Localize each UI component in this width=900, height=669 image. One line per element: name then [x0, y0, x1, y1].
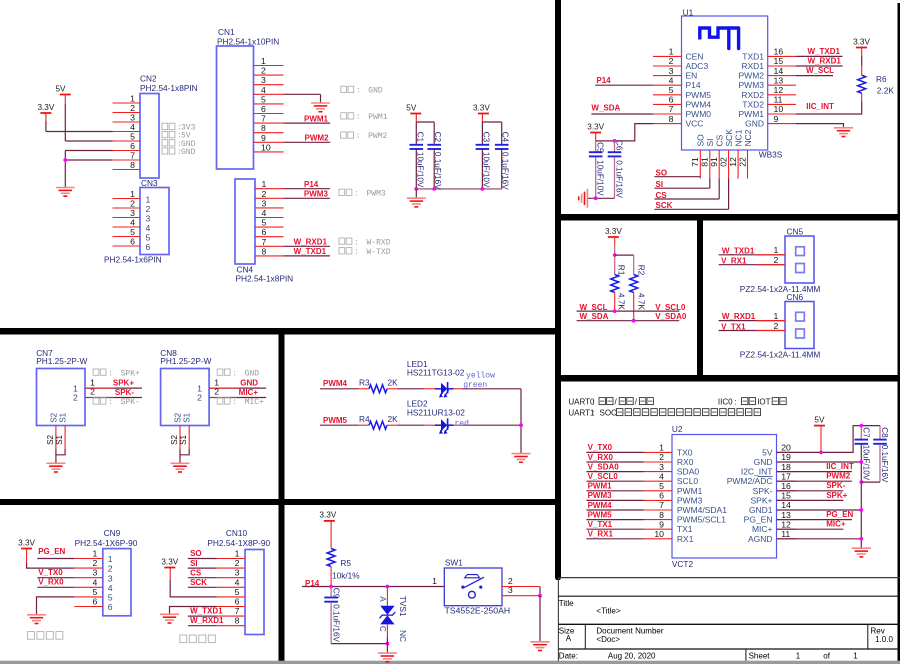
svg-text:V_RX1: V_RX1 [721, 257, 747, 266]
svg-text:PWM5/SCL1: PWM5/SCL1 [677, 515, 726, 525]
svg-text:W_TXD1: W_TXD1 [722, 246, 755, 255]
svg-text:PZ2.54-1x2A-11.4MM: PZ2.54-1x2A-11.4MM [740, 284, 821, 294]
svg-text:W_SDA: W_SDA [591, 104, 620, 113]
svg-text:14: 14 [781, 500, 791, 510]
svg-text:4: 4 [130, 218, 135, 228]
svg-text:CN9: CN9 [104, 528, 121, 538]
svg-text:I2C_INT: I2C_INT [741, 467, 773, 477]
svg-text:IOT: IOT [757, 398, 770, 407]
svg-text:V_SDA0: V_SDA0 [655, 312, 687, 321]
svg-text:PWM4: PWM4 [323, 379, 348, 388]
svg-text:20: 20 [781, 443, 791, 453]
svg-text:22: 22 [737, 157, 747, 167]
svg-text:PWM5: PWM5 [323, 416, 348, 425]
svg-text:HS211UR13-02: HS211UR13-02 [407, 407, 465, 417]
svg-text:6: 6 [261, 104, 266, 114]
svg-text:Title: Title [559, 599, 574, 608]
svg-text:V_TX0: V_TX0 [588, 443, 613, 452]
svg-text:R1: R1 [617, 265, 627, 276]
svg-text:4: 4 [146, 223, 151, 233]
svg-text:15: 15 [774, 56, 784, 66]
svg-text:3: 3 [659, 462, 664, 472]
svg-text:7: 7 [235, 606, 240, 616]
svg-text:W-TXD: W-TXD [367, 248, 391, 257]
svg-text:0.1uF/16V: 0.1uF/16V [880, 445, 889, 483]
svg-text:PG_EN: PG_EN [744, 515, 773, 525]
svg-text:4: 4 [261, 85, 266, 95]
svg-text:5: 5 [130, 227, 135, 237]
svg-text:V_RX0: V_RX0 [588, 453, 614, 462]
svg-text:5: 5 [235, 587, 240, 597]
svg-text:W_RXD1: W_RXD1 [722, 312, 756, 321]
svg-text:PWM4: PWM4 [588, 501, 613, 510]
svg-text:W_TXD1: W_TXD1 [808, 47, 841, 56]
svg-text:Document Number: Document Number [596, 626, 663, 635]
svg-text:W_RXD1: W_RXD1 [190, 616, 224, 625]
svg-text:2: 2 [262, 189, 267, 199]
svg-text:2K: 2K [388, 414, 399, 424]
svg-text:GND: GND [181, 148, 196, 157]
svg-text:Sheet: Sheet [749, 652, 771, 661]
svg-text:11: 11 [781, 529, 790, 539]
svg-text:CS: CS [190, 568, 202, 577]
svg-text:5: 5 [669, 85, 674, 95]
svg-text:2: 2 [197, 393, 202, 403]
svg-text:SPK-: SPK- [753, 486, 773, 496]
svg-text:VCT2: VCT2 [672, 559, 694, 569]
svg-text:C: C [378, 626, 387, 632]
svg-text:CS: CS [656, 191, 668, 200]
svg-text:V_SDA0: V_SDA0 [588, 462, 620, 471]
svg-text:2: 2 [93, 558, 98, 568]
svg-text:S1: S1 [179, 434, 188, 444]
svg-text:CN1: CN1 [218, 27, 235, 37]
svg-text:SO: SO [696, 134, 706, 147]
svg-text:RX1: RX1 [677, 534, 694, 544]
svg-text:2: 2 [235, 558, 240, 568]
svg-text:1: 1 [796, 652, 801, 661]
svg-text:3: 3 [261, 75, 266, 85]
svg-text:1: 1 [659, 443, 664, 453]
svg-text:C4: C4 [501, 132, 510, 143]
svg-text:PG_EN: PG_EN [826, 510, 853, 519]
svg-text:2: 2 [669, 56, 674, 66]
svg-text:PWM2: PWM2 [739, 71, 765, 81]
svg-text:V_TX1: V_TX1 [721, 322, 746, 331]
svg-text:7: 7 [130, 151, 135, 161]
svg-text:1: 1 [262, 179, 267, 189]
svg-text:1: 1 [669, 47, 674, 57]
svg-text:SPK+: SPK+ [751, 495, 773, 505]
svg-text::: : [232, 369, 237, 378]
svg-text::: : [108, 369, 113, 378]
svg-text:6: 6 [146, 242, 151, 252]
svg-text:C5: C5 [596, 142, 605, 153]
svg-text:SI: SI [190, 559, 198, 568]
svg-text:1.0.0: 1.0.0 [875, 635, 893, 644]
svg-text:MIC+: MIC+ [239, 388, 259, 397]
svg-text:V_RX0: V_RX0 [38, 578, 64, 587]
svg-text:CN10: CN10 [226, 528, 248, 538]
svg-text:V_TX1: V_TX1 [588, 520, 613, 529]
svg-text:1: 1 [261, 56, 266, 66]
svg-text:R3: R3 [359, 378, 370, 388]
svg-text:TVS1: TVS1 [398, 596, 408, 617]
svg-text:10: 10 [261, 142, 271, 152]
svg-text:PWM3: PWM3 [304, 190, 329, 199]
svg-text:5: 5 [146, 233, 151, 243]
svg-text:NC: NC [398, 630, 408, 642]
svg-text:PH2.54-1x10PIN: PH2.54-1x10PIN [217, 37, 279, 47]
svg-text:of: of [823, 652, 830, 661]
svg-text:2: 2 [130, 199, 135, 209]
svg-text:WB3S: WB3S [759, 149, 783, 159]
svg-text:7: 7 [261, 114, 266, 124]
svg-text:GND1: GND1 [749, 505, 773, 515]
svg-text:PWM2: PWM2 [826, 472, 851, 481]
svg-text:SO: SO [190, 549, 202, 558]
svg-text:11: 11 [774, 95, 783, 105]
svg-text:SPK+: SPK+ [121, 369, 140, 378]
svg-text:C2: C2 [433, 132, 442, 143]
svg-text:1: 1 [432, 576, 437, 586]
svg-text:4: 4 [235, 577, 240, 587]
svg-text:10uF/10V: 10uF/10V [861, 445, 870, 481]
svg-text::: : [108, 398, 113, 407]
svg-text:PH2.54-1X8P-90: PH2.54-1X8P-90 [207, 538, 270, 548]
svg-text:NC2: NC2 [743, 129, 753, 146]
svg-text:SCK: SCK [656, 201, 673, 210]
svg-text:1: 1 [773, 245, 778, 255]
svg-text:V_TX0: V_TX0 [38, 568, 63, 577]
svg-text:3.3V: 3.3V [161, 557, 178, 566]
svg-text:CN2: CN2 [140, 74, 157, 84]
svg-text:6: 6 [659, 491, 664, 501]
svg-text::: : [354, 190, 359, 199]
svg-text::: : [356, 87, 361, 96]
svg-text:PH2.54-1x8PIN: PH2.54-1x8PIN [140, 83, 198, 93]
svg-text:S2: S2 [46, 434, 55, 444]
svg-text:Date:: Date: [559, 652, 578, 661]
svg-text:PWM0: PWM0 [686, 109, 712, 119]
svg-text:10uF/10V: 10uF/10V [596, 160, 605, 196]
svg-text:PH1.25-2P-W: PH1.25-2P-W [160, 356, 211, 366]
svg-text:PWM1: PWM1 [739, 109, 765, 119]
svg-text::: : [356, 113, 361, 122]
svg-text:GND: GND [745, 119, 764, 129]
svg-text:PWM1: PWM1 [368, 113, 387, 122]
svg-text:7: 7 [669, 104, 674, 114]
svg-text:13: 13 [781, 510, 791, 520]
svg-text:9: 9 [261, 133, 266, 143]
svg-text:9: 9 [659, 519, 664, 529]
svg-text:A: A [378, 596, 387, 602]
svg-text:5: 5 [130, 132, 135, 142]
svg-text:1: 1 [146, 195, 151, 205]
svg-text:1: 1 [93, 549, 98, 559]
svg-text::: : [354, 238, 359, 247]
svg-text:A: A [566, 634, 572, 643]
svg-text:S1: S1 [183, 412, 192, 422]
svg-text:C8: C8 [880, 427, 889, 438]
svg-text:02: 02 [718, 157, 728, 167]
svg-text:U1: U1 [683, 7, 694, 17]
svg-text:4: 4 [108, 583, 113, 593]
svg-text:W_SCL: W_SCL [806, 66, 834, 75]
svg-text:PWM3: PWM3 [367, 190, 386, 199]
svg-text:P14: P14 [596, 76, 611, 85]
svg-text:6: 6 [130, 237, 135, 247]
svg-text:1: 1 [130, 94, 135, 104]
svg-text:1: 1 [773, 311, 778, 321]
svg-text:SCL0: SCL0 [677, 476, 699, 486]
svg-text:EN: EN [686, 71, 698, 81]
svg-text:UART0: UART0 [568, 398, 595, 407]
svg-text:PWM3: PWM3 [677, 495, 703, 505]
svg-text:12: 12 [781, 519, 791, 529]
svg-text:5V: 5V [762, 447, 773, 457]
svg-text:2: 2 [659, 452, 664, 462]
svg-text:2: 2 [146, 204, 151, 214]
svg-text:PWM5: PWM5 [686, 90, 712, 100]
svg-text:3.3V: 3.3V [18, 538, 35, 547]
svg-text:PWM1: PWM1 [588, 482, 613, 491]
svg-text:PH2.54-1x6PIN: PH2.54-1x6PIN [104, 255, 162, 265]
svg-text:6: 6 [108, 602, 113, 612]
svg-text:SPK-: SPK- [115, 388, 134, 397]
svg-text:GND: GND [240, 379, 258, 388]
svg-text:R4: R4 [359, 414, 370, 424]
svg-text:14: 14 [774, 66, 784, 76]
svg-text:PH2.54-1X6P-90: PH2.54-1X6P-90 [75, 538, 138, 548]
svg-text:8: 8 [235, 616, 240, 626]
svg-text:7: 7 [659, 500, 664, 510]
svg-text:PH2.54-1x8PIN: PH2.54-1x8PIN [236, 274, 294, 284]
svg-text:6: 6 [93, 597, 98, 607]
svg-text:3: 3 [130, 208, 135, 218]
svg-text:C3: C3 [481, 132, 490, 143]
svg-text:CN3: CN3 [141, 178, 158, 188]
svg-text:<Doc>: <Doc> [596, 635, 620, 644]
svg-text:C1: C1 [415, 132, 424, 143]
svg-text:W_TXD1: W_TXD1 [190, 606, 223, 615]
svg-text:4: 4 [130, 122, 135, 132]
svg-text:MIC+: MIC+ [245, 398, 264, 407]
svg-text:SDA0: SDA0 [677, 467, 699, 477]
svg-text:PWM2: PWM2 [305, 134, 330, 143]
svg-text:PZ2.54-1x2A-11.4MM: PZ2.54-1x2A-11.4MM [740, 349, 821, 359]
svg-text:4: 4 [659, 471, 664, 481]
svg-text:2: 2 [214, 387, 219, 397]
svg-text:6: 6 [262, 227, 267, 237]
svg-text:16: 16 [781, 481, 791, 491]
svg-text:PWM5: PWM5 [588, 510, 613, 519]
svg-text:R5: R5 [340, 558, 351, 568]
svg-text:SCK: SCK [190, 578, 207, 587]
svg-text:PWM1: PWM1 [677, 486, 703, 496]
svg-text::: : [735, 398, 737, 407]
svg-text:S2: S2 [174, 412, 183, 422]
svg-text:PWM4/SDA1: PWM4/SDA1 [677, 505, 727, 515]
svg-text:5: 5 [262, 218, 267, 228]
svg-text:S2: S2 [49, 412, 58, 422]
svg-text:19: 19 [781, 452, 791, 462]
svg-text:P14: P14 [686, 80, 701, 90]
svg-text:6: 6 [130, 141, 135, 151]
svg-text:SPK-: SPK- [121, 398, 140, 407]
svg-text:3: 3 [146, 214, 151, 224]
svg-text::: : [356, 132, 361, 141]
svg-text:3.3V: 3.3V [37, 103, 54, 112]
svg-text:3: 3 [108, 573, 113, 583]
svg-text:W_SDA: W_SDA [580, 312, 609, 321]
svg-text:17: 17 [781, 471, 791, 481]
svg-text:10: 10 [774, 104, 784, 114]
svg-text:3.3V: 3.3V [605, 227, 622, 236]
svg-text:8: 8 [130, 160, 135, 170]
svg-text:4.7K: 4.7K [617, 293, 627, 311]
svg-text:5: 5 [659, 481, 664, 491]
svg-text:AGND: AGND [748, 534, 773, 544]
svg-text:W_RXD1: W_RXD1 [294, 238, 328, 247]
svg-text:5: 5 [261, 94, 266, 104]
svg-text:TXD2: TXD2 [742, 99, 764, 109]
svg-text:V_SCL0: V_SCL0 [588, 472, 619, 481]
svg-text:MIC+: MIC+ [752, 524, 773, 534]
svg-text:C7: C7 [861, 427, 870, 438]
svg-text:3: 3 [130, 113, 135, 123]
svg-text:SI: SI [656, 180, 664, 189]
svg-text:2: 2 [261, 66, 266, 76]
svg-text:PWM4: PWM4 [686, 99, 712, 109]
svg-text:TS4552E-250AH: TS4552E-250AH [445, 606, 511, 616]
svg-text:2: 2 [130, 103, 135, 113]
svg-text:12: 12 [774, 85, 784, 95]
svg-text:CEN: CEN [686, 51, 704, 61]
svg-text:SOC: SOC [600, 409, 618, 418]
svg-text:3.3V: 3.3V [473, 103, 490, 112]
svg-text:5V: 5V [55, 84, 66, 93]
svg-text:8: 8 [261, 123, 266, 133]
svg-text:1: 1 [108, 554, 113, 564]
svg-text:18: 18 [781, 462, 791, 472]
svg-text:VCC: VCC [686, 119, 704, 129]
svg-text:W_RXD1: W_RXD1 [808, 56, 842, 65]
svg-text:TX1: TX1 [677, 524, 693, 534]
svg-text:3.3V: 3.3V [853, 37, 870, 46]
svg-text:3: 3 [235, 568, 240, 578]
svg-text:ADC3: ADC3 [686, 61, 709, 71]
svg-text:PWM3: PWM3 [588, 491, 613, 500]
svg-text:red: red [455, 420, 470, 429]
svg-text:5V: 5V [814, 415, 825, 424]
svg-text:green: green [463, 381, 487, 390]
svg-text:CN6: CN6 [787, 292, 804, 302]
svg-text:GND: GND [245, 369, 260, 378]
svg-text:3.3V: 3.3V [587, 122, 604, 131]
svg-text:W_SCL: W_SCL [580, 303, 608, 312]
svg-text::: : [592, 409, 594, 418]
svg-text:R2: R2 [637, 265, 647, 276]
svg-text:yellow: yellow [466, 372, 495, 381]
svg-text:Rev: Rev [871, 626, 885, 635]
svg-text:0.1uF/16V: 0.1uF/16V [332, 604, 341, 642]
svg-text:Aug 20, 2020: Aug 20, 2020 [608, 652, 656, 661]
svg-text:4: 4 [262, 208, 267, 218]
svg-text:2: 2 [773, 321, 778, 331]
svg-text:GND: GND [754, 457, 773, 467]
svg-text:S1: S1 [55, 434, 64, 444]
svg-text:8: 8 [659, 510, 664, 520]
svg-text:2: 2 [108, 564, 113, 574]
svg-text:IIC0: IIC0 [718, 398, 733, 407]
svg-text:1: 1 [130, 189, 135, 199]
svg-text::: : [232, 398, 237, 407]
svg-text:4.7K: 4.7K [637, 293, 647, 311]
svg-text:GND: GND [368, 87, 383, 96]
svg-text:8: 8 [262, 246, 267, 256]
svg-text:IIC_INT: IIC_INT [826, 462, 854, 471]
svg-text:TX0: TX0 [677, 447, 693, 457]
svg-text:W-RXD: W-RXD [367, 238, 391, 247]
svg-text:PWM2: PWM2 [368, 132, 387, 141]
svg-text:RX0: RX0 [677, 457, 694, 467]
svg-text:1: 1 [235, 549, 240, 559]
svg-text:0.1uF/16V: 0.1uF/16V [433, 152, 442, 190]
svg-text:<Title>: <Title> [596, 607, 620, 616]
svg-text:R6: R6 [876, 74, 887, 84]
svg-text:6: 6 [669, 95, 674, 105]
svg-text:HS211TG13-02: HS211TG13-02 [407, 368, 465, 378]
svg-text:PWM3: PWM3 [739, 80, 765, 90]
svg-text:SPK-: SPK- [826, 481, 845, 490]
svg-text:PWM1: PWM1 [304, 114, 329, 123]
svg-text:UART1: UART1 [568, 409, 595, 418]
svg-text:4: 4 [669, 75, 674, 85]
svg-text:2: 2 [73, 393, 78, 403]
svg-text:81: 81 [700, 157, 710, 167]
svg-text:PG_EN: PG_EN [38, 547, 65, 556]
svg-text:7: 7 [262, 237, 267, 247]
svg-text:SW1: SW1 [445, 558, 463, 568]
svg-text::: : [592, 398, 594, 407]
svg-text:5: 5 [108, 593, 113, 603]
svg-text:1: 1 [853, 652, 858, 661]
svg-text::: : [354, 248, 359, 257]
svg-text:SPK+: SPK+ [826, 491, 847, 500]
svg-text:U2: U2 [672, 424, 683, 434]
svg-text:2.2K: 2.2K [877, 86, 895, 96]
svg-text:SO: SO [656, 169, 668, 178]
svg-text:16: 16 [774, 47, 784, 57]
svg-text:C6: C6 [615, 140, 624, 151]
svg-text:5V: 5V [406, 103, 417, 112]
svg-text:C9: C9 [332, 588, 341, 599]
svg-text:IIC_INT: IIC_INT [806, 102, 834, 111]
svg-text:PH1.25-2P-W: PH1.25-2P-W [36, 356, 87, 366]
svg-text:RXD1: RXD1 [741, 61, 764, 71]
svg-text:2K: 2K [388, 378, 399, 388]
svg-text:5: 5 [93, 587, 98, 597]
svg-text:3: 3 [508, 585, 513, 595]
svg-text:P14: P14 [304, 180, 319, 189]
svg-text:3: 3 [262, 198, 267, 208]
svg-text:PWM2/ADC: PWM2/ADC [727, 476, 773, 486]
svg-text:TXD1: TXD1 [742, 51, 764, 61]
svg-text:3: 3 [669, 66, 674, 76]
svg-text:10k/1%: 10k/1% [332, 570, 360, 580]
svg-text:V_SCL0: V_SCL0 [655, 303, 686, 312]
